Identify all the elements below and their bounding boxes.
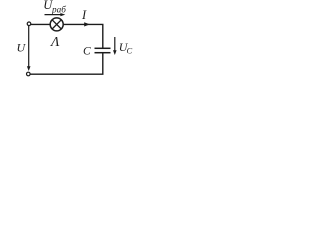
voltage arrow U xyxy=(27,26,31,71)
label UC xyxy=(119,40,133,55)
svg-text:раб: раб xyxy=(51,4,66,14)
label Uраб xyxy=(43,0,66,14)
current arrow I xyxy=(84,22,90,26)
wire lamp to right corner and down to capacitor xyxy=(63,24,103,48)
svg-text:Λ: Λ xyxy=(49,35,60,50)
terminal top input xyxy=(27,22,31,26)
wire terminal to lamp xyxy=(31,23,50,25)
lamp Л xyxy=(50,18,63,31)
svg-text:C: C xyxy=(127,46,133,56)
capacitor C xyxy=(95,48,111,52)
arrow Uраб xyxy=(45,13,66,16)
arrow UC xyxy=(113,37,117,55)
svg-text:I: I xyxy=(81,8,87,22)
svg-text:C: C xyxy=(83,45,91,57)
wire capacitor down to bottom corner and left to terminal xyxy=(30,53,103,74)
terminal bottom input xyxy=(27,72,31,76)
svg-text:U: U xyxy=(17,40,27,54)
